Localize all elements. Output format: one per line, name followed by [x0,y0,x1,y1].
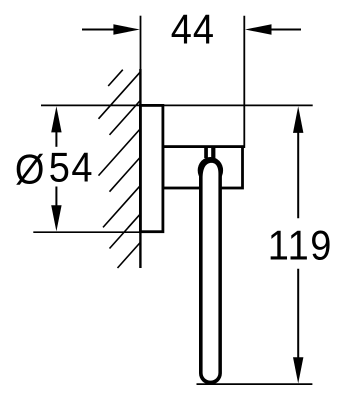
svg-text:44: 44 [171,7,215,53]
pivot ball [198,157,223,184]
wire bottom extension line O54 [33,231,140,233]
svg-text:54: 54 [49,145,94,191]
wire right extension line 44 [243,16,245,148]
arm [163,147,243,188]
wire top extension line [41,104,313,106]
arrow O54 up [51,106,61,132]
arrow 44 left [113,24,139,34]
dim 44 line right [272,29,302,31]
wire left extension line 44 [140,16,142,70]
holder loop outer [199,158,222,385]
wire bottom extension line 119 [197,383,313,385]
dim 119 upper line [297,131,299,219]
arrow 119 down [293,357,303,383]
arrow 119 up [293,106,303,133]
arrow O54 down [51,205,61,231]
dim O54 upper line [55,130,57,147]
dim 44 line left [82,29,114,31]
dim 119 lower line [297,269,299,359]
svg-text:119: 119 [268,223,333,269]
wall [139,69,141,268]
hatching [99,70,142,268]
pivot pin [204,147,208,158]
arrow 44 right [245,24,272,34]
svg-text:Ø: Ø [15,147,45,193]
holder loop inner [203,163,219,381]
dim O54 lower line [55,187,57,208]
mounting plate [140,105,163,231]
